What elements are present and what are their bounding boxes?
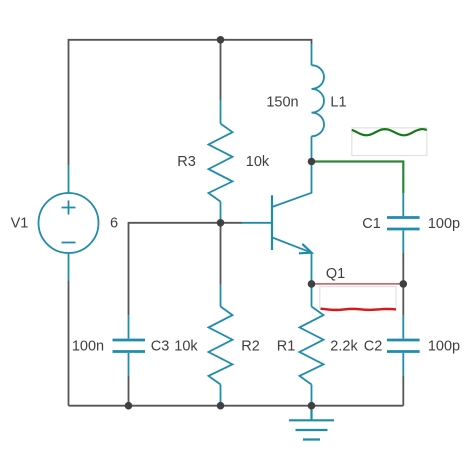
scope trace green [352,129,427,135]
wire top rail from V1 to L1 [69,40,312,165]
wire node to C2 top [402,284,404,316]
svg-text:100p: 100p [428,216,460,232]
wire R3 top lead to rail [220,40,222,100]
capacitor C3 [113,315,146,375]
wire C1 bottom to node [402,252,404,284]
node dot top rail R3 [217,36,225,44]
svg-text:6: 6 [110,216,118,232]
svg-text:2.2k: 2.2k [330,339,358,355]
node dot rail ground [308,402,316,410]
wire R2 top lead to node [220,223,222,285]
node dot rail R2 [217,402,225,410]
node dot L1 collector [308,158,316,166]
capacitor C2 [387,315,420,375]
capacitor C1 [387,193,420,252]
resistor R1 [300,287,324,406]
node dot C1 C2 junction [400,280,408,288]
svg-text:100n: 100n [72,339,104,355]
svg-text:C2: C2 [364,339,383,355]
svg-text:R3: R3 [177,154,196,170]
svg-text:100p: 100p [428,339,460,355]
svg-text:10k: 10k [174,339,198,355]
node dot base row [217,219,225,227]
wire node 6 horizontal and down to C3 [129,223,243,316]
scope thumbnail box red [320,287,396,309]
svg-text:C3: C3 [151,339,170,355]
wire green collector net L1 to C1 [312,162,404,194]
voltage source V1 [39,165,99,281]
svg-text:V1: V1 [11,216,29,232]
svg-text:L1: L1 [330,95,346,111]
ground [289,406,334,440]
svg-text:150n: 150n [266,95,298,111]
wire C2 bottom to rail [402,375,404,405]
resistor R3 [209,100,233,223]
scope thumbnail box green [352,128,427,156]
scope trace red [321,309,397,310]
svg-text:R2: R2 [241,339,260,355]
transistor Q1 [242,164,312,281]
inductor L1 [312,44,325,160]
wire bottom rail [69,405,404,407]
svg-text:C1: C1 [362,216,381,232]
wire red emitter net Q1 to C2 [312,283,404,285]
node dot rail C3 [125,402,133,410]
svg-text:10k: 10k [246,154,270,170]
wire C3 bottom to rail [128,375,130,405]
wire V1 bottom to rail [68,281,70,406]
node dot emitter [308,280,316,288]
resistor R2 [209,284,233,405]
svg-text:R1: R1 [277,339,296,355]
svg-text:Q1: Q1 [326,266,345,282]
